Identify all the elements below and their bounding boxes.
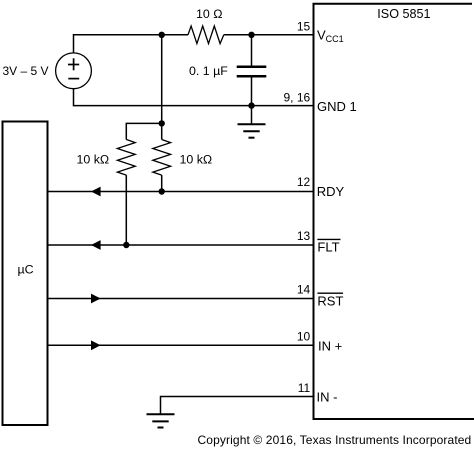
svg-text:9, 16: 9, 16: [283, 90, 310, 104]
wire source bottom to GND1 rail: [74, 89, 313, 106]
svg-text:FLT: FLT: [317, 240, 339, 255]
wire pull-up feed from top rail: [161, 35, 163, 124]
pin RDY name: [317, 184, 345, 199]
pin VCC1 name: [317, 27, 344, 44]
arrow IN+ toward ISO: [91, 340, 101, 350]
voltage source V1 3V-5V: [56, 53, 92, 89]
svg-text:ISO 5851: ISO 5851: [377, 7, 430, 21]
svg-text:IN +: IN +: [318, 338, 342, 353]
pin RST name with overline: [317, 293, 343, 308]
pin GND 1 name: [317, 99, 357, 114]
wire top rail right of resistor: [224, 34, 313, 36]
capacitor C1 0.1uF: [237, 35, 267, 106]
arrow RST toward ISO: [91, 294, 101, 304]
microcontroller U2 µC box: [3, 122, 48, 426]
svg-text:VCC1: VCC1: [317, 27, 344, 44]
wire IN- line: [161, 397, 313, 415]
pin IN+ name: [318, 338, 342, 353]
wire jog to left resistor: [126, 123, 161, 139]
svg-text:Copyright © 2016, Texas Instru: Copyright © 2016, Texas Instruments Inco…: [198, 433, 472, 447]
svg-text:12: 12: [297, 175, 311, 189]
pin 12 number: [297, 175, 311, 189]
ground symbol at IN-: [147, 414, 175, 427]
label 10 kohm right: [180, 152, 213, 166]
pin 15 number: [297, 20, 311, 34]
wire left resistor to FLT net: [125, 175, 127, 245]
svg-text:11: 11: [298, 381, 311, 395]
svg-text:10 Ω: 10 Ω: [196, 7, 223, 21]
pin 10 number: [297, 329, 311, 343]
label 10 ohm: [196, 7, 223, 21]
wire VCC1 top rail: [74, 35, 189, 53]
resistor R2 10 kohm left: [117, 140, 135, 176]
pin FLT name with overline: [317, 239, 340, 254]
wire RDY line: [49, 191, 313, 193]
resistor R3 10 kohm right: [153, 123, 171, 191]
svg-text:RDY: RDY: [317, 184, 345, 199]
pin IN- name: [317, 390, 338, 405]
label 0.1 uF: [189, 64, 228, 78]
wire RST line: [49, 298, 313, 300]
node junction dot divider top: [159, 120, 165, 126]
pin 13 number: [297, 229, 311, 243]
svg-text:10 kΩ: 10 kΩ: [77, 152, 110, 166]
arrow FLT toward µC: [91, 240, 101, 250]
wire IN+ line: [49, 344, 313, 346]
copyright note: [198, 433, 472, 447]
pin 11 number: [298, 381, 311, 395]
label 3V - 5 V: [3, 64, 49, 78]
svg-text:µC: µC: [18, 263, 34, 277]
wire FLT line: [49, 244, 313, 246]
label ISO 5851: [377, 7, 430, 21]
label 10 kohm left: [77, 152, 110, 166]
svg-text:RST: RST: [317, 294, 343, 309]
svg-text:3V – 5 V: 3V – 5 V: [3, 64, 49, 78]
svg-text:IN -: IN -: [317, 390, 338, 405]
node junction dot FLT at pull-up: [123, 242, 129, 248]
arrow RDY toward µC: [91, 187, 101, 197]
svg-text:15: 15: [297, 20, 311, 34]
svg-text:GND 1: GND 1: [317, 99, 357, 114]
svg-text:14: 14: [297, 282, 311, 296]
svg-text:10: 10: [297, 329, 311, 343]
pin 9,16 number: [283, 90, 310, 104]
svg-text:10 kΩ: 10 kΩ: [180, 152, 213, 166]
node junction dot top rail at capacitor: [248, 32, 254, 38]
gate driver U1 ISO 5851 box outline: [314, 4, 474, 419]
node junction dot GND1 rail at capacitor: [248, 102, 254, 108]
svg-text:0. 1 µF: 0. 1 µF: [189, 64, 228, 78]
resistor R1 10 ohm: [188, 26, 224, 44]
svg-text:13: 13: [297, 229, 311, 243]
node junction dot RDY at right resistor: [159, 188, 165, 194]
node junction dot top rail at divider: [159, 32, 165, 38]
ground symbol GND1: [238, 106, 266, 138]
pin 14 number: [297, 282, 311, 296]
